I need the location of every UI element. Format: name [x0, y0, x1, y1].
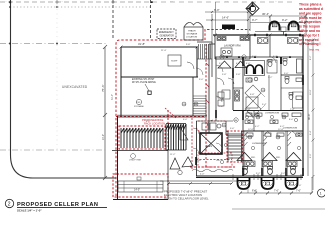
svg-text:75'-6": 75'-6"	[101, 84, 105, 92]
squiggle drain line	[192, 169, 233, 172]
red note above bikes	[142, 118, 165, 126]
svg-text:5'-6": 5'-6"	[230, 128, 235, 130]
svg-text:9'-2": 9'-2"	[281, 173, 286, 175]
svg-text:LIVINGROOM: LIVINGROOM	[265, 113, 279, 115]
living room labels	[252, 113, 297, 146]
north wall main y35	[213, 34, 303, 36]
bath fixtures right column	[246, 59, 303, 109]
red dashed vertical x168	[167, 110, 169, 150]
red dashed west boundary	[116, 40, 205, 196]
svg-text:W/D: W/D	[251, 157, 256, 159]
stair shaft north x197-x212	[197, 42, 212, 77]
north wall west section y47	[121, 46, 197, 48]
svg-text:LIVINGROOM: LIVINGROOM	[252, 143, 266, 145]
corridor wall x209	[208, 44, 210, 133]
washer/dryer column x236	[187, 62, 240, 106]
utility room tag	[129, 154, 141, 162]
svg-text:14'-0": 14'-0"	[134, 189, 140, 192]
svg-text:as submitted d: as submitted d	[299, 7, 323, 11]
svg-text:TRASH: TRASH	[188, 30, 196, 33]
door arcs interior	[196, 57, 296, 137]
trash storage box with canopy	[184, 22, 203, 40]
svg-text:9'-0": 9'-0"	[246, 109, 251, 111]
bed outline upper right	[267, 60, 277, 73]
tag circles row y57	[220, 55, 252, 122]
svg-text:10'-6": 10'-6"	[310, 89, 312, 95]
red dashed diag near stairs SW	[165, 108, 202, 134]
east wall x303	[302, 35, 304, 176]
svg-text:12'-6": 12'-6"	[278, 129, 284, 131]
svg-text:8'-4": 8'-4"	[218, 133, 223, 135]
door triangles SW stair area	[170, 157, 193, 175]
red dashed ramp/vault box	[113, 174, 168, 197]
red dashed top jog to north wall	[205, 30, 250, 41]
door jamb stubs y57	[227, 56, 290, 64]
lobby diamond tiles	[245, 85, 265, 117]
compass north arrow	[246, 2, 259, 15]
closet partition hatches	[244, 131, 288, 176]
svg-text:3'-8": 3'-8"	[222, 74, 227, 76]
sump room bottom wall y77	[121, 76, 198, 78]
svg-text:SCALE 1/4" = 1'-0": SCALE 1/4" = 1'-0"	[17, 209, 42, 213]
dashed vline x113 (areaway edge)	[112, 0, 114, 40]
corridor west wall x196.5	[196, 121, 198, 176]
property line west with curved corner	[11, 0, 117, 178]
svg-text:9'-2": 9'-2"	[256, 173, 261, 175]
grid bubble right	[318, 189, 325, 197]
svg-text:- --: - --	[60, 0, 63, 3]
stair south treads (by elevator)	[228, 131, 242, 162]
svg-text:24'-0": 24'-0"	[102, 134, 105, 140]
closet diagonal hatch	[244, 132, 291, 146]
stair north treads	[197, 44, 212, 59]
svg-text:SUMP: SUMP	[171, 61, 178, 63]
svg-text:and are appro: and are appro	[299, 11, 321, 15]
svg-text:4'-6": 4'-6"	[246, 63, 251, 65]
svg-text:STORAGE: STORAGE	[134, 105, 144, 108]
svg-text:21'-6": 21'-6"	[161, 50, 167, 52]
svg-text:7'-6": 7'-6"	[296, 190, 301, 193]
svg-text:7'-2": 7'-2"	[219, 106, 224, 108]
svg-text:31'-4": 31'-4"	[111, 94, 114, 100]
dashed vline x150.5	[150, 0, 152, 40]
svg-text:4'-8": 4'-8"	[236, 63, 241, 65]
bike rack hatching	[121, 128, 163, 148]
solid black beam bar	[222, 25, 235, 30]
interior vertical x281	[280, 57, 282, 110]
svg-text:3'-0": 3'-0"	[199, 79, 204, 81]
svg-text:7'-4": 7'-4"	[290, 109, 295, 111]
laundry room walls	[209, 35, 250, 59]
small dark wall chunks	[196, 57, 303, 176]
window well south 1	[238, 177, 250, 189]
tiny top edge text fragments	[2, 0, 277, 3]
svg-text:ALIGN TO CELLAR FLOOR LEVEL: ALIGN TO CELLAR FLOOR LEVEL	[164, 197, 209, 201]
RED_NETWORK	[113, 30, 250, 198]
scattered dim fragments	[146, 44, 302, 193]
sump pit square	[168, 55, 181, 66]
interior horizontal y75 right	[281, 74, 303, 76]
svg-text:8'-6": 8'-6"	[146, 121, 151, 123]
interior horizontal y57	[215, 56, 303, 58]
svg-text:W/ STL PLATE ABOVE: W/ STL PLATE ABOVE	[132, 81, 156, 84]
red marks in laundry corridor	[206, 63, 209, 103]
red dashed segment above elevator	[198, 120, 226, 122]
window well south 2	[262, 177, 274, 189]
west lower wall x117	[117, 116, 119, 200]
hall wall y136	[226, 135, 243, 137]
red examiner stamp text block	[299, 3, 323, 47]
svg-text:--: --	[275, 0, 277, 3]
svg-text:-- -: -- -	[170, 0, 173, 3]
sink circle pairs under north wall	[258, 38, 299, 44]
storage tag circle	[134, 99, 144, 108]
interior vertical x254 mid	[253, 110, 255, 131]
north wall base line under domes	[255, 31, 303, 33]
svg-text:8'-2": 8'-2"	[310, 55, 312, 60]
SITE_LINES	[0, 0, 296, 180]
svg-text:-- .--: -- .--	[2, 0, 7, 3]
svg-text:plans must be: plans must be	[299, 16, 322, 20]
survey centerline y150	[0, 149, 105, 151]
south dimension line y193	[239, 177, 313, 195]
bottom faint line right y209	[232, 208, 325, 210]
toilets south row	[243, 166, 296, 174]
red dashed lobby rect	[198, 153, 232, 167]
door stubs on north wall	[250, 34, 300, 36]
svg-text:LIVINGROOM: LIVINGROOM	[283, 128, 297, 130]
dim lines top right	[216, 2, 308, 35]
svg-text:GM: GM	[194, 104, 198, 106]
svg-text:These plans a: These plans a	[299, 3, 322, 7]
hall wall y121	[196, 120, 233, 122]
svg-text:EXISTING STL POST: EXISTING STL POST	[132, 79, 155, 81]
svg-text:is the respon: is the respon	[299, 25, 320, 29]
red dashed along y116	[116, 116, 206, 118]
dome window well north 2	[289, 22, 299, 31]
sump room east wall x197	[196, 47, 198, 77]
red dashed vertical x192	[191, 118, 193, 170]
svg-text:6'-0": 6'-0"	[310, 153, 312, 158]
svg-text:10'-0": 10'-0"	[174, 129, 180, 131]
dim ticks line y183.5	[168, 183, 232, 185]
svg-text:UNEXCAVATED: UNEXCAVATED	[62, 85, 88, 89]
title underline	[17, 207, 107, 209]
svg-text:5'-0": 5'-0"	[284, 73, 289, 75]
interior vertical x286 lower	[285, 131, 287, 176]
svg-text:- --: - --	[225, 0, 228, 3]
svg-text:STORAGE: STORAGE	[187, 33, 198, 36]
south wall double y176.6	[196, 176, 303, 178]
interior horizontal y131	[243, 130, 303, 132]
tub right wall	[297, 59, 303, 73]
vertical x168 from bike wall down	[167, 151, 169, 175]
ticks between window wells	[233, 174, 301, 180]
bottom wall y199.5	[113, 199, 168, 201]
svg-text:of Plumbing I: of Plumbing I	[299, 42, 321, 46]
svg-text:W/D: W/D	[276, 157, 281, 159]
svg-text:4'-2": 4'-2"	[255, 126, 260, 128]
svg-text:9'-7": 9'-7"	[252, 18, 258, 22]
east edge of ramp area x168	[167, 174, 169, 200]
dim texts top	[138, 8, 288, 46]
svg-text:36'-8": 36'-8"	[308, 114, 311, 120]
svg-text:6'-8": 6'-8"	[250, 94, 255, 96]
laundry center island	[221, 48, 232, 56]
svg-text:5'-4": 5'-4"	[262, 104, 267, 106]
ramp table in vault box	[118, 181, 163, 192]
laundry fixtures row	[217, 37, 249, 41]
existing steel post note	[132, 79, 156, 94]
east dim rotated fragments	[310, 55, 312, 158]
svg-text:7'-6": 7'-6"	[274, 190, 279, 193]
svg-text:36'-4": 36'-4"	[262, 12, 269, 16]
svg-text:3'-6": 3'-6"	[252, 56, 257, 58]
svg-text:12'-6": 12'-6"	[248, 129, 254, 131]
svg-text:14'-6": 14'-6"	[222, 16, 229, 20]
survey dotted line y7	[10, 6, 152, 8]
door zigzag triangles south row	[237, 153, 301, 161]
svg-text:PROPOSED CELLER PLAN: PROPOSED CELLER PLAN	[17, 202, 98, 208]
wall ticks on main walls	[120, 34, 305, 49]
svg-text:8'-0": 8'-0"	[289, 119, 294, 121]
svg-text:4'-2": 4'-2"	[280, 126, 285, 128]
svg-text:GM: GM	[234, 120, 238, 122]
emergency generator dashed box	[157, 29, 176, 39]
svg-text:3'-8": 3'-8"	[236, 74, 241, 76]
bike area bottom wall y150.5	[112, 150, 168, 152]
window well south 3	[286, 177, 298, 189]
svg-text:7'-6": 7'-6"	[252, 190, 257, 193]
dome window well north 1	[270, 22, 280, 31]
wall y116 double	[117, 115, 207, 117]
red dashed y159.5 segment	[196, 159, 232, 161]
svg-text:9'-2": 9'-2"	[282, 18, 288, 22]
fixtures above elevator	[202, 123, 221, 130]
svg-text:GENERATOR: GENERATOR	[160, 35, 175, 38]
svg-text:1: 1	[320, 192, 322, 196]
mid tag between domes	[281, 27, 286, 32]
door bowtie symbols under laundry	[218, 61, 246, 68]
misc tag circles	[182, 88, 301, 164]
survey intersection dots	[9, 1, 153, 44]
bike rack hatching east part	[166, 124, 186, 151]
svg-text:EMERGENCY: EMERGENCY	[159, 32, 174, 34]
interior wall x193 lower	[192, 77, 194, 116]
svg-text:office and no: office and no	[299, 29, 320, 33]
red dashed y167 lobby line	[190, 166, 235, 168]
bottom-left area line y181	[160, 180, 250, 182]
svg-text:5'-0": 5'-0"	[219, 63, 224, 65]
survey faint vline x57	[56, 0, 58, 150]
corridor door arcs row	[193, 65, 223, 154]
electric vault note	[164, 190, 209, 201]
vanities south row	[245, 161, 297, 167]
plus ticks on survey line	[55, 0, 115, 4]
stair mid treads	[193, 96, 206, 116]
red dashed corridor vertical x206	[205, 44, 207, 167]
svg-text:2: 2	[8, 202, 11, 208]
unit partition x269 upper	[268, 75, 270, 110]
elevator shaft with X	[200, 133, 222, 154]
svg-text:6'-0": 6'-0"	[183, 119, 188, 121]
BUILDING_WALLS	[112, 34, 308, 200]
small marks above ramp	[137, 177, 141, 180]
interior vertical x270 upper	[269, 35, 271, 57]
svg-text:LOCATION: LOCATION	[186, 36, 197, 39]
svg-text:9'-4": 9'-4"	[310, 130, 312, 135]
red dashed stair box by elevator	[227, 131, 242, 162]
west cellar wall x121	[120, 47, 122, 116]
svg-text:6'-2": 6'-2"	[273, 56, 278, 58]
interior vertical x262 lower	[261, 131, 263, 176]
survey dashed line top y2	[0, 1, 152, 3]
survey centerline y43.5	[0, 43, 108, 45]
small room rects mid	[246, 97, 258, 108]
interior horizontal y110	[233, 110, 303, 112]
svg-text:4'-0": 4'-0"	[200, 174, 205, 176]
svg-text:31'-8": 31'-8"	[138, 42, 145, 46]
interior vertical x243	[242, 57, 244, 176]
svg-text:are required: are required	[299, 38, 319, 42]
svg-text:Insp. req: Insp. req	[309, 48, 320, 52]
scattered tag texts	[182, 57, 287, 162]
interior horizontal y88	[233, 87, 243, 89]
svg-text:ELEV: ELEV	[206, 145, 213, 148]
dim line x105 vertical	[104, 47, 106, 178]
dim lines top middle	[205, 11, 249, 44]
svg-text:11'-2": 11'-2"	[170, 154, 176, 156]
svg-text:9'-8": 9'-8"	[186, 44, 191, 46]
svg-text:LAUNDRY RM: LAUNDRY RM	[224, 45, 240, 48]
svg-text:8'-0": 8'-0"	[214, 8, 220, 12]
corridor east wall x216	[216, 57, 226, 135]
svg-text:UTILITY RM: UTILITY RM	[129, 160, 141, 162]
title bubble 2	[5, 199, 13, 207]
kitchen counters mid	[245, 113, 302, 136]
east inner wall x308	[307, 40, 309, 176]
svg-text:3'-2": 3'-2"	[268, 77, 273, 79]
dome pair interior	[245, 61, 265, 76]
east dim line x313	[312, 39, 315, 191]
interior vertical x233	[232, 59, 234, 110]
door triangle by bikes	[180, 127, 188, 140]
red dashed bike storage box	[119, 126, 165, 149]
